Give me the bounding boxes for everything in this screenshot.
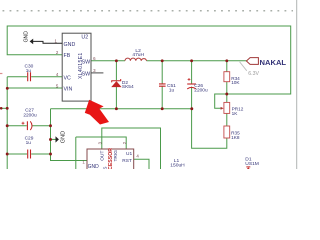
svg-text:47uH: 47uH <box>132 52 144 58</box>
svg-text:2200u: 2200u <box>194 87 208 93</box>
svg-text:1u: 1u <box>26 140 32 146</box>
svg-text:1u: 1u <box>169 87 175 93</box>
svg-text:U2: U2 <box>81 35 88 41</box>
svg-text:1K: 1K <box>232 111 239 116</box>
svg-text:1u: 1u <box>26 68 32 74</box>
svg-text:U1: U1 <box>126 151 132 157</box>
svg-text:150uH: 150uH <box>170 163 185 169</box>
svg-text:GND: GND <box>24 31 30 43</box>
svg-text:OUT: OUT <box>99 151 105 161</box>
svg-text:NAKAL: NAKAL <box>260 58 287 67</box>
svg-text:XL4015E1: XL4015E1 <box>78 52 84 79</box>
svg-text:SK54: SK54 <box>122 84 134 90</box>
svg-text:US1M: US1M <box>245 161 259 167</box>
svg-text:DIS: DIS <box>103 167 109 170</box>
svg-text:2200u: 2200u <box>23 113 37 119</box>
svg-text:1K8: 1K8 <box>231 135 240 140</box>
svg-text:VC: VC <box>64 75 72 81</box>
svg-text:GND: GND <box>88 164 100 169</box>
svg-text:CESSOR: CESSOR <box>108 148 114 169</box>
svg-text:GND: GND <box>64 42 76 48</box>
svg-text:RST: RST <box>122 158 132 164</box>
svg-text:FB: FB <box>64 53 71 59</box>
svg-text:GND: GND <box>61 131 67 143</box>
svg-text:10K: 10K <box>231 80 240 85</box>
svg-text:VIN: VIN <box>64 87 73 93</box>
svg-text:6.3V: 6.3V <box>248 71 259 77</box>
